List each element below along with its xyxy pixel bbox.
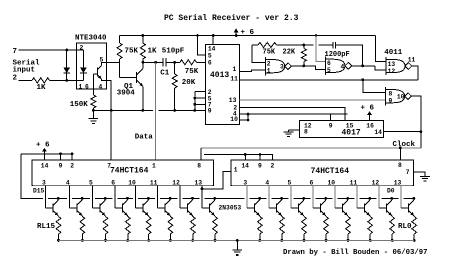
wire feedback tap to gate4 pin8 (363, 80, 386, 93)
diode D2 opto input (82, 50, 84, 80)
resistor 150K base (92, 74, 94, 95)
svg-text:6: 6 (310, 179, 314, 186)
node Q1 emitter rail (142, 109, 145, 112)
svg-text:2: 2 (271, 162, 275, 169)
wire opto collector out pin5 (101, 62, 119, 65)
svg-text:6: 6 (111, 179, 115, 186)
wire reset tie vertical (247, 114, 249, 120)
ground right chip pin7 (420, 175, 430, 177)
gate U3d NAND 4011 (385, 87, 387, 105)
wire 4013 pin11 feedback from gate3 (240, 79, 418, 81)
wire 75K to Q1 base (119, 62, 121, 77)
wire 4013 pin1 to gate1 (240, 70, 266, 72)
svg-text:4: 4 (341, 63, 345, 70)
svg-text:75K: 75K (263, 49, 276, 57)
svg-text:PC Serial Receiver - ver 2.3: PC Serial Receiver - ver 2.3 (164, 14, 299, 23)
wire +6 loop left chip (21, 154, 43, 199)
svg-text:5: 5 (208, 52, 212, 59)
wire 4017 pin14 clock (384, 131, 421, 133)
node 150K rail (92, 109, 95, 112)
relay coil RL2 (368, 217, 373, 235)
svg-text:74HCT164: 74HCT164 (110, 167, 149, 176)
wire right chip pin7 ground (413, 172, 425, 176)
svg-text:6: 6 (327, 60, 331, 67)
svg-text:3: 3 (243, 179, 247, 186)
wire 75K to 4013 pin6 (197, 61, 206, 63)
node diode D1 top (65, 49, 68, 52)
svg-text:D0: D0 (387, 187, 395, 194)
node diode D1 bottom (65, 79, 68, 82)
svg-text:15: 15 (346, 122, 354, 129)
wire +6 drop to gate2 pin6 (316, 36, 326, 62)
svg-text:14: 14 (208, 45, 216, 52)
wire +6 rail left chip (21, 153, 72, 155)
resistor 20K (174, 62, 176, 74)
node rail 1K (142, 34, 145, 37)
svg-text:1: 1 (267, 67, 271, 74)
capacitor 1200pF (332, 42, 334, 49)
wire cascade pin13 to right pin1 (201, 188, 204, 191)
wire left chip pin2 stub (71, 154, 73, 160)
relay coil RL7 (258, 217, 263, 235)
svg-text:7: 7 (13, 48, 18, 56)
svg-text:3: 3 (42, 179, 46, 186)
svg-text:input: input (13, 66, 36, 74)
wire resistor to opto (50, 79, 84, 81)
wire right pin9 stub (259, 155, 261, 160)
svg-text:13: 13 (229, 97, 237, 104)
node Data tap (154, 61, 157, 64)
svg-text:9: 9 (389, 98, 393, 105)
wire left chip pin14 stub (43, 154, 45, 160)
svg-text:2: 2 (267, 60, 271, 67)
svg-text:5: 5 (327, 67, 331, 74)
wire opto emitter to IC3 pin7 (110, 110, 112, 159)
wire pin2 to resistor (19, 79, 33, 81)
node rail gate2 drop (315, 34, 318, 37)
relay coil RL6 (280, 217, 285, 235)
svg-text:3: 3 (280, 64, 284, 71)
wire 4013 pin4 stub (240, 113, 249, 115)
optocoupler U1 NTE3040 box (77, 43, 107, 89)
node Q1 collector (142, 61, 145, 64)
gate U3a NAND 4011 (265, 57, 267, 75)
wire 4013 pin13 to gate4 pin9 (240, 99, 386, 101)
wire clock horizontal (201, 147, 421, 149)
4013 pin14 wire (212, 36, 214, 45)
relay coil RL8 (213, 217, 218, 235)
wire +6 rail to gate3 pin13 (376, 36, 386, 62)
svg-text:14: 14 (374, 129, 382, 136)
svg-text:11: 11 (230, 76, 238, 83)
svg-text:4011: 4011 (384, 49, 403, 57)
relay coil RL14 (80, 217, 85, 235)
wire opto emitter out pin4 (101, 79, 111, 111)
svg-text:10: 10 (128, 179, 136, 186)
svg-text:10: 10 (230, 116, 238, 123)
svg-text:1: 1 (152, 162, 156, 169)
4013 left tie wire pins 2 5 7 9 (194, 92, 196, 111)
node emitter ground rail (110, 109, 113, 112)
node rail 4013 tie (193, 109, 196, 112)
ground bottom rail (236, 239, 239, 242)
resistor 1K collector (142, 36, 144, 44)
wire Q1 collector node to C1 (143, 61, 163, 63)
resistor 75K series (180, 60, 197, 65)
relay coil RL11 (146, 217, 151, 235)
svg-text:C1: C1 (160, 69, 170, 77)
svg-text:10: 10 (397, 94, 405, 101)
gate U3c NAND 4011 (385, 57, 387, 75)
svg-text:1200pF: 1200pF (325, 51, 350, 59)
svg-text:12: 12 (172, 179, 180, 186)
svg-text:8: 8 (389, 90, 393, 97)
relay coil RL5 (302, 217, 307, 235)
svg-text:16: 16 (366, 122, 374, 129)
resistor 75K pullup (119, 36, 121, 44)
wire right pin14 stub (244, 155, 246, 160)
svg-text:4013: 4013 (210, 71, 229, 80)
wire cap line right segment (319, 44, 333, 46)
wire left chip pin9 stub (60, 154, 62, 160)
svg-text:9: 9 (59, 162, 63, 169)
transistor Q1 3904 (120, 77, 137, 79)
relay coil RL0 (412, 217, 417, 235)
svg-text:7: 7 (406, 169, 410, 176)
svg-text:9: 9 (208, 108, 212, 115)
svg-text:6: 6 (85, 83, 89, 90)
relay coil RL13 (103, 217, 108, 235)
svg-text:9: 9 (258, 162, 262, 169)
resistor 1K input (32, 78, 50, 83)
svg-text:13: 13 (394, 179, 402, 186)
svg-text:14: 14 (241, 162, 249, 169)
svg-text:Clock: Clock (393, 141, 416, 149)
wire 4013 pin10 stub (240, 119, 249, 121)
node feedback tap (361, 78, 364, 81)
svg-text:7: 7 (107, 162, 111, 169)
svg-text:14: 14 (41, 162, 49, 169)
wire pin7 line (19, 49, 84, 51)
IC U4 4017 box (300, 120, 384, 137)
svg-text:1: 1 (233, 66, 237, 73)
svg-text:150K: 150K (70, 101, 89, 109)
IC U5 74HCT164 box (32, 160, 214, 186)
wire C1 to 75K series (166, 61, 180, 63)
svg-text:2N3053: 2N3053 (219, 205, 242, 212)
svg-text:10: 10 (328, 179, 336, 186)
svg-text:4: 4 (66, 179, 70, 186)
4013 pin5 wire (198, 36, 206, 55)
wire ground rail upper right (159, 109, 206, 111)
svg-text:Drawn by - Bill Bouden - 06/03: Drawn by - Bill Bouden - 06/03/97 (283, 249, 428, 257)
wire cap to gate2 output node (336, 45, 363, 66)
wire reset to 4017 pin9 (248, 113, 343, 115)
node clock 4017 pin14 (420, 130, 423, 133)
svg-text:4: 4 (265, 179, 269, 186)
svg-text:4: 4 (99, 83, 103, 90)
svg-text:13: 13 (388, 61, 396, 68)
wire Data vertical (155, 62, 157, 160)
svg-text:13: 13 (195, 179, 203, 186)
svg-text:12: 12 (372, 179, 380, 186)
svg-text:9: 9 (329, 122, 333, 129)
svg-text:11: 11 (150, 179, 158, 186)
svg-text:510pF: 510pF (162, 47, 185, 55)
resistor 75K gate feedback (252, 45, 266, 63)
capacitor C1 510pF (162, 58, 164, 66)
power +6 arrow top (234, 28, 239, 32)
wire 4013 pin12 to 4017 pin15 (240, 108, 346, 121)
relay coil RL12 (126, 217, 131, 235)
wire +6 rail to cap line left (304, 44, 314, 46)
wire +6 top rail (120, 35, 376, 37)
svg-text:75K: 75K (125, 48, 139, 56)
svg-text:+ 6: + 6 (36, 141, 50, 149)
resistor 22K (303, 45, 305, 49)
wire +6 collector bus (48, 197, 67, 199)
gate U3b NAND 4011 (325, 57, 327, 75)
svg-text:11: 11 (350, 179, 358, 186)
wire +6 rail right chip (204, 155, 273, 160)
svg-text:5: 5 (89, 179, 93, 186)
svg-text:2: 2 (13, 75, 18, 83)
wire clock drop right chip pin8 (399, 148, 401, 160)
svg-text:+ 6: + 6 (241, 29, 255, 37)
svg-text:+ 6: + 6 (361, 105, 375, 113)
svg-text:RL15: RL15 (37, 223, 56, 231)
wire bottom ground rail (59, 239, 415, 241)
ground opto 150K (92, 110, 94, 118)
svg-text:3904: 3904 (117, 90, 136, 98)
node clock to IC4 pin8 (399, 146, 402, 149)
node cap gate2out (361, 65, 364, 68)
relay coil RL10 (168, 217, 173, 235)
svg-text:Data: Data (135, 133, 154, 141)
wire ground rail upper left (93, 109, 153, 111)
svg-text:1: 1 (79, 83, 83, 90)
node rail arrow (235, 34, 238, 37)
opto phototransistor (97, 68, 99, 77)
svg-text:11: 11 (408, 56, 416, 63)
svg-text:2: 2 (70, 162, 74, 169)
svg-text:8: 8 (304, 129, 308, 136)
node gate1 out 22K (303, 65, 306, 68)
svg-text:22K: 22K (283, 49, 296, 57)
wire gate3 output loop (412, 66, 418, 80)
svg-text:74HCT164: 74HCT164 (311, 167, 350, 176)
svg-text:1K: 1K (148, 48, 158, 56)
svg-text:12: 12 (388, 68, 396, 75)
relay coil RL9 (191, 217, 196, 235)
svg-text:2: 2 (80, 44, 84, 51)
wire clock drop left chip pin8 (200, 148, 202, 160)
svg-text:5: 5 (288, 179, 292, 186)
relay coil RL1 (390, 217, 395, 235)
wire gate4 output clock (412, 96, 421, 148)
IC U2 4013 box (205, 45, 239, 125)
wire gate2 output to gate3 pin12 (352, 65, 376, 67)
svg-text:D15: D15 (33, 187, 45, 194)
svg-text:8: 8 (398, 162, 402, 169)
node 75K 22K cap (303, 44, 306, 47)
svg-text:20K: 20K (182, 79, 196, 87)
IC U6 74HCT164 box (231, 160, 413, 186)
wire gate1 output to gate2 pin5 (292, 65, 304, 67)
svg-text:1K: 1K (37, 84, 47, 92)
wire 4017 pin13 ground stub (289, 129, 300, 131)
svg-text:75K: 75K (185, 68, 199, 76)
diode D1 external (66, 50, 68, 80)
svg-text:NTE3040: NTE3040 (75, 35, 107, 43)
svg-text:1: 1 (234, 166, 238, 173)
node 20K tap (173, 61, 176, 64)
svg-text:RL0: RL0 (398, 223, 412, 231)
node 20K rail (173, 109, 176, 112)
relay coil RL4 (324, 217, 329, 235)
ground 4017 (284, 131, 294, 133)
svg-text:6: 6 (208, 59, 212, 66)
relay coil RL15 (56, 217, 61, 235)
svg-text:8: 8 (197, 162, 201, 169)
svg-text:4017: 4017 (342, 129, 361, 138)
relay coil RL3 (346, 217, 351, 235)
